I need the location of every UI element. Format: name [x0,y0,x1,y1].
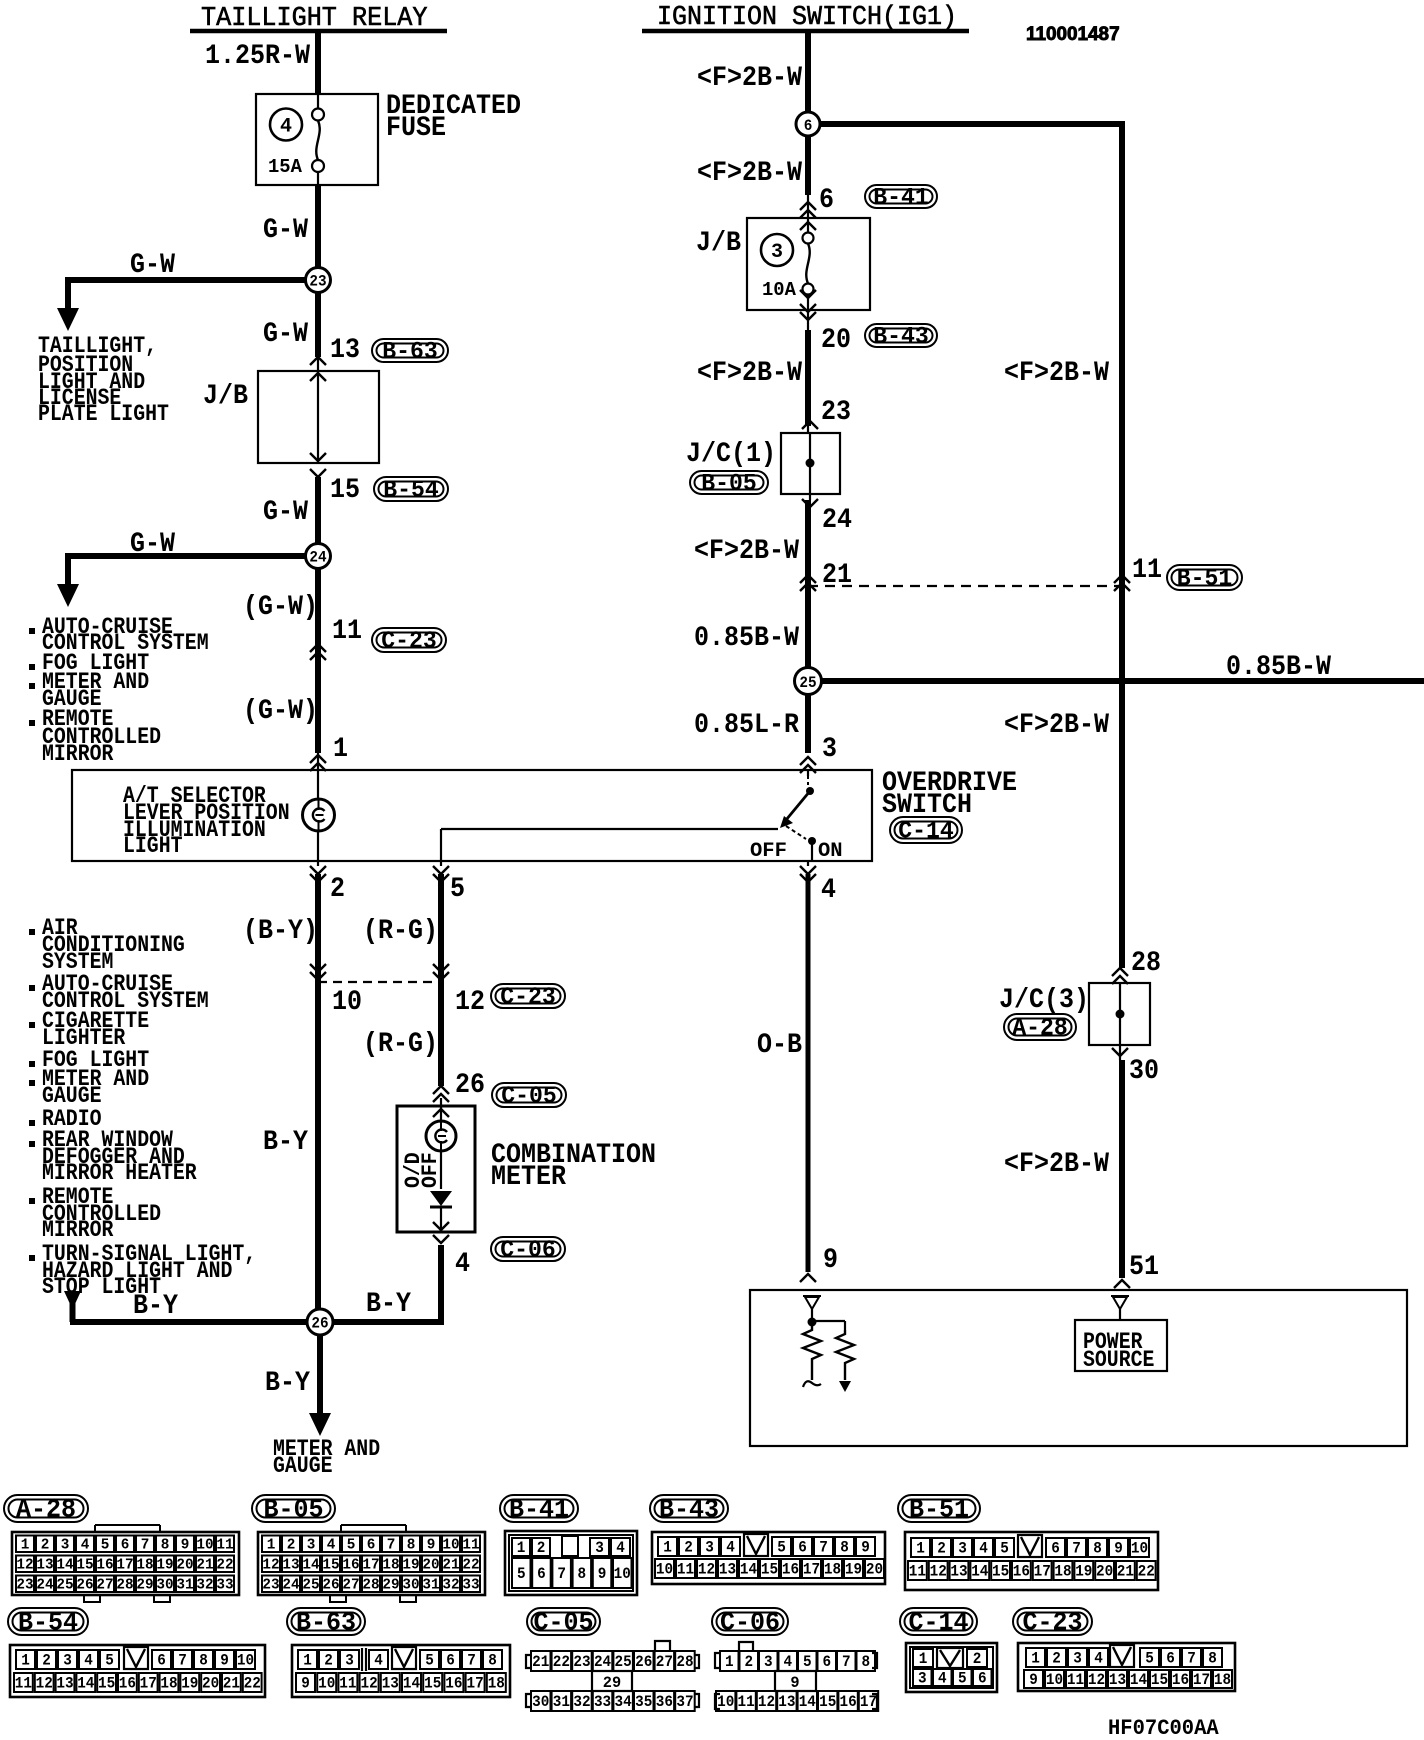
svg-text:MIRROR HEATER: MIRROR HEATER [42,1160,197,1186]
transmission and power source box [750,1290,1407,1446]
svg-text:3: 3 [345,1652,354,1670]
svg-text:10: 10 [614,1565,631,1583]
connector pinout B-54 label [8,1608,88,1635]
svg-text:7: 7 [842,1653,851,1671]
wire to solenoid junction [811,1309,813,1322]
wire through J/B [317,371,319,463]
svg-text:16: 16 [119,1675,136,1693]
svg-text:11: 11 [339,1675,356,1693]
connector pinout A-28 label [4,1495,88,1522]
connector pinout B-41 label [500,1495,578,1522]
svg-text:6: 6 [367,1536,376,1553]
junction connector J/C(1) box [781,433,840,494]
svg-text:11: 11 [677,1561,694,1579]
svg-text:G-W: G-W [263,319,308,350]
svg-text:14: 14 [302,1556,319,1573]
svg-text:2: 2 [41,1536,50,1553]
svg-text:2: 2 [330,874,345,905]
solenoid resistor left [803,1326,821,1380]
svg-text:3: 3 [764,1653,773,1671]
svg-text:4: 4 [374,1652,383,1670]
svg-text:0.85B-W: 0.85B-W [1226,652,1331,683]
svg-text:16: 16 [342,1556,359,1573]
connector pinout B-41 [505,1531,637,1595]
svg-text:5: 5 [450,874,465,905]
svg-text:14: 14 [740,1561,758,1579]
svg-text:5: 5 [347,1536,356,1553]
svg-text:24: 24 [594,1653,612,1671]
svg-text:5: 5 [958,1670,967,1688]
dedicated fuse box [256,94,378,185]
connector crossing arrows pin 26 [433,1086,449,1094]
J/C(1) junction dot [806,459,815,468]
svg-text:11: 11 [738,1693,755,1711]
svg-text:16: 16 [96,1556,113,1573]
svg-text:C-14: C-14 [908,1607,968,1637]
svg-text:12: 12 [455,987,485,1018]
connector pinout C-06 label [712,1608,788,1635]
svg-text:21: 21 [196,1556,213,1573]
svg-text:17: 17 [1034,1563,1051,1581]
wire through J/C(3) [1119,983,1121,1045]
svg-text:27: 27 [656,1653,673,1671]
svg-text:G-W: G-W [130,529,175,560]
wire G-W fuse to node 23 [315,184,321,280]
connector pinout B-43 label [650,1495,728,1522]
svg-text:1: 1 [303,1652,312,1670]
connector oval B-54 [374,477,448,501]
svg-text:22: 22 [1138,1563,1155,1581]
svg-text:10: 10 [717,1693,734,1711]
svg-text:7: 7 [819,1539,828,1557]
svg-text:28: 28 [116,1576,133,1593]
svg-text:5: 5 [105,1652,114,1670]
svg-text:21: 21 [442,1556,459,1573]
node 6 [796,112,820,136]
svg-text:9: 9 [823,1245,838,1276]
svg-text:32: 32 [442,1576,459,1593]
svg-text:A-28: A-28 [16,1494,76,1524]
svg-text:9: 9 [1029,1671,1038,1689]
wire (B-Y) to dashed junction [317,861,319,866]
svg-text:B-63: B-63 [382,339,438,366]
connector crossing arrows pin 15 [310,453,326,461]
svg-text:3: 3 [63,1652,72,1670]
svg-text:18: 18 [1054,1563,1071,1581]
svg-text:1: 1 [919,1650,928,1668]
svg-text:11: 11 [216,1536,233,1553]
svg-text:10: 10 [332,987,362,1018]
O/D OFF indicator lamp [426,1121,456,1151]
svg-text:1: 1 [1031,1650,1040,1668]
svg-text:C-23: C-23 [500,984,556,1011]
wire (F)2B-W J/C(1) to node 25 [809,494,811,500]
svg-text:(G-W): (G-W) [243,592,318,623]
connector pinout C-05 label [527,1608,600,1635]
connector pinout B-43 [652,1532,885,1584]
svg-text:9: 9 [598,1565,607,1583]
svg-text:STOP LIGHT: STOP LIGHT [42,1274,161,1300]
svg-text:7: 7 [178,1652,187,1670]
svg-text:8: 8 [488,1652,497,1670]
svg-text:3: 3 [771,241,783,264]
svg-text:IGNITION SWITCH(IG1): IGNITION SWITCH(IG1) [657,2,957,32]
connector crossing arrow pin 11 right leg [1114,575,1130,583]
svg-text:11: 11 [332,616,362,647]
svg-text:J/B: J/B [696,228,741,259]
svg-text:O-B: O-B [757,1030,802,1061]
svg-text:26: 26 [455,1070,485,1101]
svg-text:MIRROR: MIRROR [42,1217,114,1243]
svg-text:22: 22 [244,1675,261,1693]
svg-text:8: 8 [861,1653,870,1671]
connector pinout C-14 label [900,1608,977,1635]
connector pinout C-05 [655,1641,670,1650]
svg-text:GAUGE: GAUGE [273,1453,333,1479]
svg-text:5: 5 [517,1565,526,1583]
svg-text:11: 11 [1132,555,1162,586]
svg-text:28: 28 [676,1653,693,1671]
connector crossing arrows pin 13 [310,357,326,365]
svg-text:13: 13 [282,1556,299,1573]
input triangle pin 51 [1111,1295,1129,1297]
svg-text:B-Y: B-Y [265,1368,310,1399]
svg-text:6: 6 [537,1565,546,1583]
svg-text:4: 4 [455,1249,470,1280]
svg-text:28: 28 [362,1576,379,1593]
svg-text:23: 23 [16,1576,33,1593]
svg-text:7: 7 [467,1652,476,1670]
wire (F)2B-W ignition switch to node 6 [805,31,811,124]
svg-text:30: 30 [1129,1056,1159,1087]
wire (F)2B-W node 6 to J/B fuse 3 [805,124,811,195]
arrowhead to accessory loads [57,584,79,607]
connector crossing arrow pin 10 [310,964,326,972]
svg-text:4: 4 [726,1539,735,1557]
svg-text:(G-W): (G-W) [243,696,318,727]
svg-text:8: 8 [199,1652,208,1670]
svg-text:1: 1 [21,1652,30,1670]
svg-text:9: 9 [301,1675,310,1693]
svg-text:17: 17 [803,1561,820,1579]
node 26 [307,1309,333,1335]
svg-text:13: 13 [950,1563,967,1581]
svg-text:2: 2 [42,1652,51,1670]
svg-text:5: 5 [1145,1650,1154,1668]
svg-text:24: 24 [36,1576,53,1593]
svg-text:15: 15 [76,1556,93,1573]
connector oval C-23 [372,628,446,652]
connector pinout B-05 label [252,1495,335,1522]
wire (R-G) to dashed junction [440,861,442,866]
svg-text:13: 13 [36,1556,53,1573]
fuse number circle 3 [761,234,793,266]
svg-text:4: 4 [280,116,292,139]
bus bar under TAILLIGHT RELAY title [190,29,447,34]
svg-text:<F>2B-W: <F>2B-W [697,158,802,189]
wire 0.85B-W to right page edge [808,678,1424,684]
svg-text:6: 6 [157,1652,166,1670]
svg-text:30: 30 [402,1576,419,1593]
connector crossing arrows pin 2 [310,866,326,874]
svg-text:7: 7 [1187,1650,1196,1668]
fuse number circle 4 [270,109,302,141]
svg-text:6: 6 [1051,1540,1060,1558]
svg-text:3: 3 [1073,1650,1082,1668]
svg-text:6: 6 [798,1539,807,1557]
svg-text:B-05: B-05 [263,1494,323,1524]
svg-text:20: 20 [866,1561,883,1579]
svg-text:11: 11 [1067,1671,1084,1689]
connector crossing arrow pin 30 [1112,1048,1128,1056]
svg-text:14: 14 [56,1556,73,1573]
svg-text:B-63: B-63 [296,1607,356,1637]
svg-text:6: 6 [978,1670,987,1688]
svg-text:9: 9 [861,1539,870,1557]
connector crossing arrow pin 24 [802,499,818,507]
svg-text:17: 17 [362,1556,379,1573]
svg-text:22: 22 [462,1556,479,1573]
svg-text:7: 7 [141,1536,150,1553]
connector oval C-05 [492,1083,566,1107]
svg-text:OFF: OFF [750,840,787,863]
bus bar under IGNITION SWITCH title [642,29,969,34]
svg-text:23: 23 [262,1576,279,1593]
connector pinout B-51 label [898,1495,980,1522]
svg-text:4: 4 [979,1540,988,1558]
svg-text:2: 2 [937,1540,946,1558]
connector pinout C-14 [906,1643,997,1692]
dashed connector linkage pins 21-11 [808,585,1122,587]
svg-text:B-43: B-43 [873,324,929,351]
node 24 [306,544,331,569]
svg-text:13: 13 [382,1675,399,1693]
wire B-Y meter to node 26 [438,1245,444,1322]
connector pinout B-63 label [287,1608,365,1635]
svg-text:(B-Y): (B-Y) [243,916,318,947]
branch wire to right leg [808,121,1122,127]
svg-text:SOURCE: SOURCE [1083,1347,1154,1373]
svg-text:19: 19 [845,1561,862,1579]
svg-text:J/B: J/B [203,381,248,412]
junction block J/B box [258,371,379,463]
svg-text:12: 12 [262,1556,279,1573]
svg-text:21: 21 [223,1675,240,1693]
svg-text:12: 12 [698,1561,715,1579]
svg-text:11: 11 [462,1536,479,1553]
svg-text:16: 16 [445,1675,462,1693]
wire (G-W) node 24 to A/T selector light [315,556,321,753]
svg-text:B-54: B-54 [18,1607,78,1637]
svg-text:24: 24 [309,549,327,567]
connector pinout B-63 [292,1645,510,1697]
svg-text:G-W: G-W [263,215,308,246]
svg-text:19: 19 [402,1556,419,1573]
svg-text:A-28: A-28 [1012,1015,1068,1042]
svg-text:B-Y: B-Y [366,1289,411,1320]
svg-text:9: 9 [790,1674,799,1692]
svg-text:6: 6 [446,1652,455,1670]
svg-text:B-51: B-51 [909,1494,969,1524]
connector oval B-43 [865,324,937,347]
svg-text:1: 1 [517,1539,526,1557]
connector crossing arrows pin 11 [310,644,326,652]
connector crossing arrow pin 9 [800,1274,816,1282]
connector oval C-14 [890,817,962,843]
svg-text:11: 11 [15,1675,32,1693]
svg-text:10: 10 [1046,1671,1063,1689]
svg-text:0.85L-R: 0.85L-R [694,710,799,741]
svg-text:17: 17 [116,1556,133,1573]
svg-text:33: 33 [594,1693,611,1711]
svg-text:<F>2B-W: <F>2B-W [694,536,799,567]
node 23 [306,268,331,293]
svg-text:(R-G): (R-G) [363,1029,438,1060]
svg-text:B-41: B-41 [509,1494,569,1524]
svg-text:10: 10 [442,1536,459,1553]
svg-text:14: 14 [77,1675,95,1693]
svg-text:29: 29 [136,1576,153,1593]
svg-text:27: 27 [96,1576,113,1593]
wire (F)2B-W J/C(3) to power source [1119,1045,1121,1060]
svg-text:3: 3 [705,1539,714,1557]
svg-text:14: 14 [403,1675,421,1693]
svg-text:1: 1 [333,734,348,765]
svg-text:4: 4 [327,1536,336,1553]
svg-text:22: 22 [553,1653,570,1671]
svg-text:12: 12 [361,1675,378,1693]
svg-text:4: 4 [821,875,836,906]
svg-text:15: 15 [424,1675,441,1693]
fuse F4 element [317,95,319,109]
svg-text:C-06: C-06 [500,1237,556,1264]
svg-text:OFF: OFF [418,1152,443,1188]
svg-text:16: 16 [1013,1563,1030,1581]
svg-text:9: 9 [427,1536,436,1553]
svg-text:2: 2 [537,1539,546,1557]
wire (F)2B-W J/B to J/C(1) [807,310,809,330]
svg-text:TAILLIGHT RELAY: TAILLIGHT RELAY [201,3,428,33]
svg-text:30: 30 [532,1693,549,1711]
svg-text:14: 14 [1130,1671,1148,1689]
svg-text:15: 15 [1151,1671,1168,1689]
dashed connector linkage pins 10-12 [318,981,441,983]
svg-text:18: 18 [160,1675,177,1693]
svg-text:12: 12 [758,1693,775,1711]
svg-text:8: 8 [161,1536,170,1553]
connector crossing arrows pin 20 [800,290,816,298]
junction connector J/C(3) box [1089,983,1150,1045]
svg-text:17: 17 [467,1675,484,1693]
svg-text:19: 19 [1075,1563,1092,1581]
svg-text:20: 20 [176,1556,193,1573]
svg-text:24: 24 [282,1576,299,1593]
svg-text:B-Y: B-Y [263,1127,308,1158]
svg-text:8: 8 [1208,1650,1217,1668]
svg-text:23: 23 [573,1653,590,1671]
svg-text:110001487: 110001487 [1026,24,1120,45]
svg-text:3: 3 [918,1670,927,1688]
svg-text:19: 19 [181,1675,198,1693]
svg-text:8: 8 [1093,1540,1102,1558]
svg-text:29: 29 [382,1576,399,1593]
svg-text:C-23: C-23 [1022,1607,1082,1637]
svg-text:<F>2B-W: <F>2B-W [1004,1149,1109,1180]
svg-text:B-54: B-54 [383,477,439,504]
svg-text:B-51: B-51 [1177,566,1233,593]
wire to power source [1119,1309,1121,1320]
svg-text:21: 21 [1117,1563,1134,1581]
svg-text:25: 25 [56,1576,73,1593]
svg-text:5: 5 [777,1539,786,1557]
svg-text:<F>2B-W: <F>2B-W [1004,710,1109,741]
svg-text:26: 26 [76,1576,93,1593]
svg-text:26: 26 [311,1315,328,1333]
svg-text:C-14: C-14 [898,818,954,845]
svg-text:<F>2B-W: <F>2B-W [697,63,802,94]
input triangle pin 9 [803,1295,821,1297]
svg-text:20: 20 [821,325,851,356]
svg-text:20: 20 [1096,1563,1113,1581]
svg-text:1: 1 [663,1539,672,1557]
svg-text:4: 4 [84,1652,93,1670]
coil hook left [803,1381,821,1387]
svg-text:8: 8 [840,1539,849,1557]
svg-text:13: 13 [56,1675,73,1693]
svg-text:J/C(1): J/C(1) [686,439,776,470]
svg-text:22: 22 [216,1556,233,1573]
connector crossing arrow pin 28 [1112,968,1128,976]
svg-text:19: 19 [156,1556,173,1573]
wire inside combination meter [440,1098,442,1106]
svg-text:LIGHT: LIGHT [123,833,183,859]
J/C(3) junction dot [1116,1010,1125,1019]
svg-text:12: 12 [1088,1671,1105,1689]
wire G-W J/B to node 24 [315,477,321,556]
connector oval B-51 [1167,565,1242,590]
svg-text:28: 28 [1131,948,1161,979]
connector oval C-06 [491,1237,565,1261]
combination meter box [397,1106,475,1232]
connector oval B-05 [690,471,768,494]
svg-text:15: 15 [992,1563,1009,1581]
connector oval C-23 pins 10-12 [491,984,565,1008]
arrowhead to meter and gauge [309,1413,331,1436]
connector crossing arrows pin 4 meter bottom [433,1222,449,1230]
svg-text:9: 9 [220,1652,229,1670]
svg-text:11: 11 [909,1563,926,1581]
svg-text:6: 6 [819,185,834,216]
connector crossing arrows pin 1 [310,755,326,763]
svg-text:18: 18 [824,1561,841,1579]
svg-text:9: 9 [181,1536,190,1553]
svg-text:<F>2B-W: <F>2B-W [697,358,802,389]
svg-text:(R-G): (R-G) [363,916,438,947]
svg-text:31: 31 [176,1576,193,1593]
svg-text:3: 3 [822,734,837,765]
svg-text:17: 17 [1193,1671,1210,1689]
svg-text:1.25R-W: 1.25R-W [205,41,310,72]
svg-text:C-06: C-06 [720,1607,780,1637]
svg-text:7: 7 [1072,1540,1081,1558]
svg-text:15: 15 [322,1556,339,1573]
svg-text:31: 31 [553,1693,570,1711]
wire 0.85L-R node 25 to overdrive switch [805,681,811,753]
svg-text:25: 25 [799,674,816,692]
svg-text:5: 5 [1000,1540,1009,1558]
svg-text:12: 12 [930,1563,947,1581]
wire G-W node 23 to J/B [315,280,321,357]
